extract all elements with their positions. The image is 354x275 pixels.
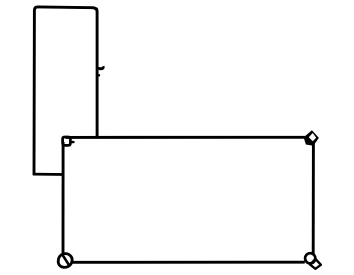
tall rectangle top-right corner blob xyxy=(93,7,98,11)
large rectangle left edge xyxy=(62,142,65,255)
tall rectangle outline xyxy=(34,7,97,175)
bottom-right corner round loop xyxy=(305,253,315,263)
large rectangle top edge xyxy=(66,136,306,139)
top-left corner nub xyxy=(71,141,74,144)
handle squiggle on right edge xyxy=(97,66,105,70)
top-left corner loop xyxy=(63,137,71,145)
large rectangle right edge xyxy=(312,144,315,256)
bottom-left corner loop xyxy=(58,254,72,268)
small nub on right edge xyxy=(97,74,100,76)
large rectangle bottom edge xyxy=(72,261,305,264)
tall rectangle bottom edge xyxy=(33,173,65,176)
bottom-left corner crossing stroke xyxy=(62,255,68,265)
bottom-right corner diamond loop xyxy=(310,259,321,269)
large rectangle white fill xyxy=(64,139,312,261)
top-right corner diamond loop xyxy=(304,130,319,146)
top-right corner loop hole xyxy=(309,133,316,141)
